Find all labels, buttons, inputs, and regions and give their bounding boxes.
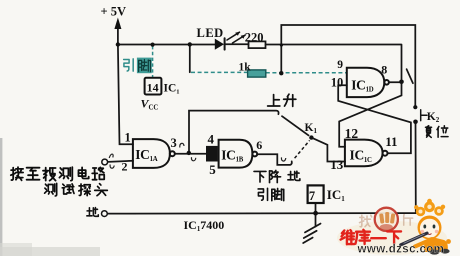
svg-text:K1: K1 bbox=[305, 122, 318, 135]
svg-text:2: 2 bbox=[122, 160, 128, 174]
svg-text:LED: LED bbox=[197, 26, 224, 40]
svg-text:K2: K2 bbox=[427, 111, 440, 124]
svg-text:IC1C: IC1C bbox=[350, 148, 373, 164]
svg-text:10: 10 bbox=[331, 76, 344, 90]
svg-text:8: 8 bbox=[381, 63, 387, 77]
svg-text:220: 220 bbox=[245, 31, 264, 45]
svg-text:www.dzsc.com: www.dzsc.com bbox=[357, 244, 445, 256]
svg-text:IC1D: IC1D bbox=[351, 77, 374, 93]
svg-text:3: 3 bbox=[171, 136, 177, 150]
svg-text:IC1: IC1 bbox=[327, 187, 345, 203]
svg-text:6: 6 bbox=[256, 138, 262, 152]
svg-text:1: 1 bbox=[125, 131, 131, 145]
svg-text:7: 7 bbox=[309, 189, 315, 203]
svg-text:9: 9 bbox=[337, 59, 343, 71]
svg-text:VCC: VCC bbox=[141, 97, 159, 112]
svg-text:IC17400: IC17400 bbox=[184, 218, 225, 233]
svg-text:IC1B: IC1B bbox=[221, 147, 244, 163]
svg-text:IC1: IC1 bbox=[164, 82, 180, 95]
svg-text:14: 14 bbox=[147, 81, 159, 95]
svg-text:4: 4 bbox=[208, 131, 215, 146]
svg-text:IC1A: IC1A bbox=[135, 147, 158, 163]
svg-text:5: 5 bbox=[209, 162, 216, 177]
svg-text:+ 5V: + 5V bbox=[101, 5, 127, 19]
svg-text:11: 11 bbox=[385, 134, 397, 149]
svg-text:1k: 1k bbox=[239, 62, 252, 74]
svg-text:13: 13 bbox=[330, 157, 344, 172]
svg-text:12: 12 bbox=[345, 126, 359, 141]
